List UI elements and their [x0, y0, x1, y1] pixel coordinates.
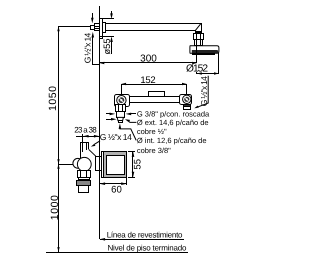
svg-text:55: 55: [133, 159, 144, 170]
svg-text:152: 152: [140, 75, 155, 86]
dim 152 (manifold): [121, 83, 187, 94]
svg-text:G ½"x 14: G ½"x 14: [199, 76, 209, 106]
manifold center boss: [149, 92, 165, 97]
manifold tube: [129, 96, 180, 98]
dim 55 (escutcheon): [128, 151, 135, 178]
dim ø55 (flange): [100, 11, 114, 54]
head collar: [195, 40, 203, 46]
leader Ø ext: [125, 119, 136, 122]
shower head face (dark band): [192, 50, 218, 53]
svg-text:ø55: ø55: [102, 38, 112, 54]
shower head under lip: [193, 54, 215, 55]
svg-text:Nivel de piso terminado: Nivel de piso terminado: [108, 243, 187, 252]
arm wall stub pipe: [91, 26, 95, 30]
linea de revestimiento: [100, 238, 185, 241]
arm nipple: [95, 24, 100, 31]
dim 23 a 38: [76, 134, 100, 144]
dim 60: [100, 178, 128, 185]
left dimension line (1050/1000): [57, 26, 93, 252]
valve big circle: [77, 157, 91, 171]
svg-text:300: 300: [140, 54, 157, 65]
ball joint (dark): [196, 32, 202, 34]
leader G 3/8: [126, 113, 136, 116]
shower head disc: [190, 46, 219, 54]
svg-text:60: 60: [111, 184, 122, 195]
wall line: [99, 6, 101, 239]
arm miter bend: [195, 23, 201, 30]
head nut: [194, 34, 204, 40]
compression adapter below left union: [116, 105, 126, 123]
G 1/2 x14 upper arrow (at arm nipple): [91, 13, 100, 65]
svg-text:1000: 1000: [49, 195, 61, 220]
head center line: [196, 46, 198, 55]
escutcheon outer box (gray): [104, 152, 127, 178]
svg-text:23 a 38: 23 a 38: [74, 125, 97, 134]
leader Ø int: [119, 123, 137, 140]
pointer arrows at adapter (left side): [106, 113, 117, 121]
svg-text:1050: 1050: [47, 86, 59, 111]
svg-text:Línea de revestimiento: Línea de revestimiento: [107, 230, 183, 239]
svg-text:G ½"x 14: G ½"x 14: [100, 132, 132, 142]
svg-text:G ½"x 14: G ½"x 14: [82, 32, 92, 63]
shower arm tube: [105, 23, 201, 25]
right text block: [137, 110, 210, 155]
valve threaded section (gray): [77, 181, 91, 186]
svg-text:Ø ext. 14,6 p/caño de: Ø ext. 14,6 p/caño de: [137, 118, 209, 127]
valve tail pipe: [79, 186, 89, 193]
svg-text:cobre 3/8": cobre 3/8": [137, 146, 171, 155]
svg-text:cobre ½": cobre ½": [137, 127, 167, 136]
dim Ø152 (head): [197, 53, 220, 75]
escutcheon inner box: [107, 156, 125, 175]
right union bottom nipple: [184, 105, 191, 107]
flange collar: [103, 23, 106, 33]
svg-text:Ø int. 12,6 p/caño de: Ø int. 12,6 p/caño de: [137, 136, 207, 145]
flange plate (escutcheon): [100, 19, 103, 39]
valve body to wall tube: [95, 156, 97, 171]
valve hex nut: [78, 171, 91, 178]
svg-text:Ø152: Ø152: [186, 63, 208, 74]
valve small circle: [73, 158, 83, 168]
valve top pipe: [80, 142, 89, 158]
nivel de piso terminado (floor line): [46, 252, 188, 254]
manifold left union: [115, 95, 130, 107]
escutcheon wall plate: [102, 152, 104, 178]
valve collar: [79, 178, 90, 180]
valve chamfer: [89, 149, 96, 156]
dim 300: [100, 55, 198, 64]
manifold right union: [180, 95, 192, 105]
